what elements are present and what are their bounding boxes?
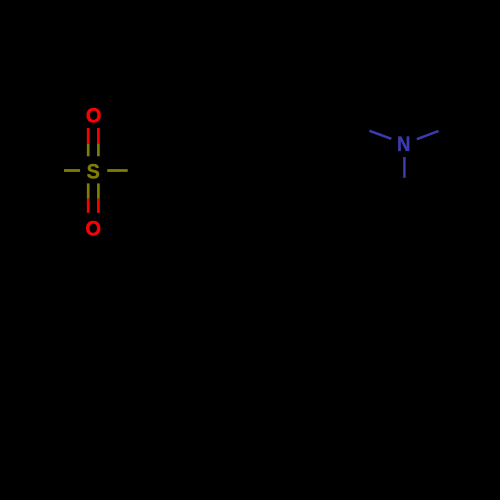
svg-text:S: S [87,160,100,184]
svg-text:O: O [85,217,101,241]
svg-text:O: O [86,104,102,128]
svg-text:N: N [397,132,410,156]
